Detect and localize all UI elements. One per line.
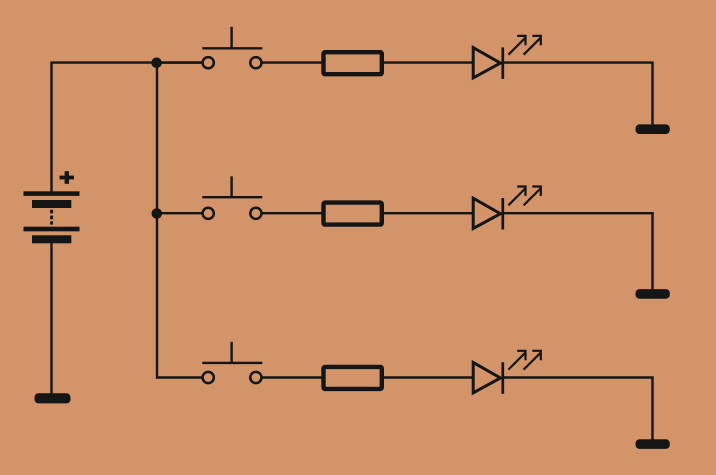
node A: top junction dot [151, 58, 162, 69]
LED D3 [473, 362, 503, 394]
label: battery + polarity [60, 171, 75, 184]
ground: branch 2 [636, 289, 670, 299]
LED D1 light arrows [508, 36, 540, 55]
wire: S1 to R1 [262, 61, 322, 63]
resistor R1 [324, 52, 382, 74]
ground: branch 1 [636, 124, 670, 134]
wire: D2 to ground drop [504, 213, 653, 290]
wire: R1 to D1 [384, 61, 472, 63]
wire: S3 to R3 [262, 376, 322, 378]
wire: node A to pushbutton S1 [157, 61, 203, 63]
wire: R3 to D3 [384, 376, 472, 378]
ground: battery negative [35, 393, 71, 403]
wire: D1 to ground drop [504, 63, 653, 125]
LED D1 [473, 47, 503, 79]
resistor R3 [324, 367, 382, 389]
LED D2 light arrows [508, 187, 540, 206]
LED D2 [473, 198, 503, 230]
LED D3 light arrows [508, 351, 540, 370]
wire: battery positive lead up and right to node A [52, 63, 204, 192]
wire: D3 to ground drop [504, 378, 653, 441]
wire: R2 to D2 [384, 212, 472, 214]
wire: node B to pushbutton S2 [157, 212, 203, 214]
ground: branch 3 [636, 439, 670, 449]
pushbutton S3 [202, 342, 262, 383]
wire: vertical bus node A to bottom branch, then to S3 [157, 63, 203, 378]
pushbutton S1 [202, 27, 262, 69]
wire: S2 to R2 [262, 212, 322, 214]
wire: battery negative lead down [50, 243, 52, 394]
node B: middle junction dot [152, 208, 163, 219]
pushbutton S2 [202, 176, 262, 219]
resistor R2 [324, 203, 382, 225]
battery BT1 [24, 191, 80, 243]
battery BT1 cell-continuation dashed line [50, 210, 53, 225]
